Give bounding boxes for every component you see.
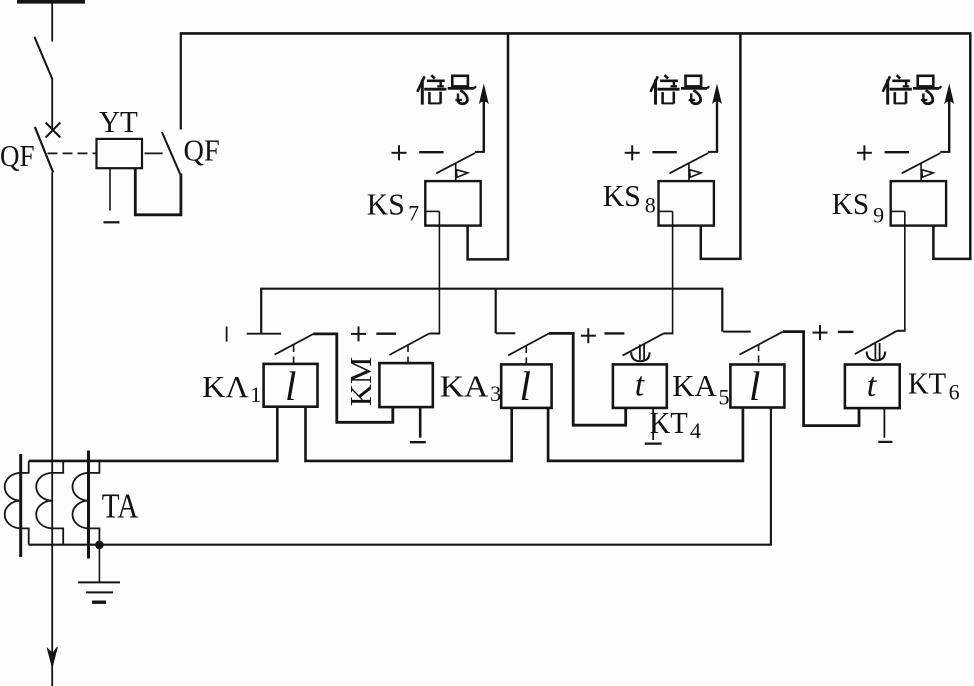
svg-text:KA: KA <box>672 368 717 403</box>
svg-text:5: 5 <box>719 384 730 409</box>
svg-text:t: t <box>867 367 878 404</box>
svg-text:7: 7 <box>408 201 419 226</box>
svg-text:KT: KT <box>650 405 688 440</box>
svg-text:l: l <box>285 363 296 409</box>
svg-text:KΛ: KΛ <box>202 369 249 404</box>
svg-text:KT: KT <box>908 365 946 400</box>
svg-text:KS: KS <box>367 186 405 221</box>
svg-text:t: t <box>635 367 646 404</box>
svg-text:6: 6 <box>949 380 960 405</box>
svg-text:8: 8 <box>645 192 656 217</box>
svg-text:4: 4 <box>690 418 701 443</box>
svg-text:l: l <box>520 363 531 409</box>
svg-text:KM: KM <box>343 357 378 407</box>
svg-text:TA: TA <box>102 486 139 525</box>
svg-text:3: 3 <box>490 381 501 406</box>
svg-text:l: l <box>749 363 760 409</box>
svg-text:QF: QF <box>0 138 35 173</box>
svg-text:YT: YT <box>99 104 138 139</box>
svg-text:QF: QF <box>184 132 220 167</box>
svg-text:KS: KS <box>832 186 869 221</box>
svg-text:KS: KS <box>603 178 641 213</box>
svg-text:1: 1 <box>250 382 261 407</box>
svg-text:9: 9 <box>873 202 884 227</box>
svg-text:KA: KA <box>440 369 489 404</box>
